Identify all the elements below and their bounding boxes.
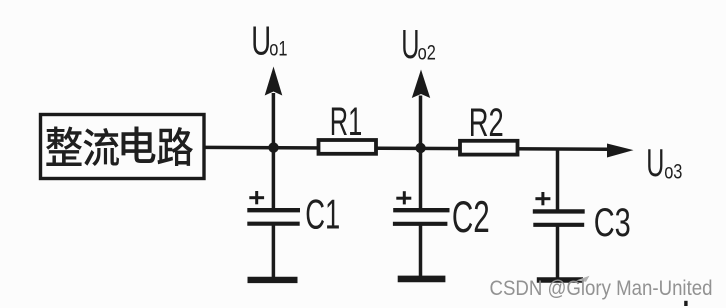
node 2 junction dot [415,143,425,153]
ground C1 [248,277,298,283]
rectifier label char zheng (整) [46,126,82,166]
U_o3 label [646,140,682,184]
wire C1 to ground [272,225,276,278]
svg-text:R2: R2 [469,101,504,145]
capacitor C1 top plate [247,208,300,212]
stray ink mark [684,301,687,306]
U_o2 label [401,23,436,67]
U_o1 arrow head [265,67,283,96]
svg-text:C1: C1 [305,192,340,238]
wire branch 1 vertical [272,93,276,209]
resistor R1 [319,140,377,154]
svg-text:o3: o3 [664,160,682,183]
svg-text:R1: R1 [330,100,362,144]
node 3 T junction wire branch 3 vertical [556,148,560,210]
svg-text:C3: C3 [594,201,631,246]
svg-text:U: U [251,18,271,64]
svg-text:o2: o2 [418,40,436,63]
U_o2 arrow head [412,70,430,99]
svg-text:CSDN @Glory Man-United: CSDN @Glory Man-United [490,275,713,300]
capacitor C3 bottom plate [533,223,584,227]
capacitor C2 top plate [393,208,449,212]
capacitor C3 polarity plus [535,192,550,205]
resistor R2 [460,141,518,155]
U_o3 output arrow head [607,144,634,158]
svg-text:C2: C2 [452,192,490,241]
rectifier label char lu (路) [157,127,192,166]
capacitor C3 top plate [533,209,585,213]
wire C3 to ground [556,226,560,278]
scan smudge arrow artifact [576,276,590,282]
wire branch 2 vertical [419,96,423,210]
svg-text:U: U [646,140,664,184]
svg-text:o1: o1 [269,37,287,60]
capacitor C2 polarity plus [396,191,411,204]
capacitor C1 polarity plus [249,191,264,204]
rectifier label char dian (电) [122,126,156,163]
U_o1 label [251,18,287,64]
rectifier label char liu (流) [83,128,118,166]
capacitor C1 bottom plate [247,222,299,226]
wire main bus [204,147,609,149]
capacitor C2 bottom plate [393,222,448,226]
ground C2 [398,276,446,283]
wire C2 to ground [419,225,423,277]
ground C3 [537,277,583,283]
rectifier block box [41,115,205,179]
svg-text:U: U [401,23,419,67]
node 1 junction dot [268,142,278,152]
